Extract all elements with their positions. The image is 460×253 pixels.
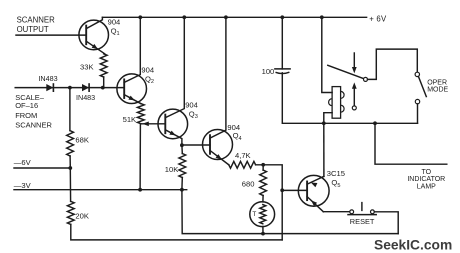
wire relay branch down <box>322 17 332 92</box>
svg-text:TO: TO <box>421 169 431 176</box>
transistor Q3 <box>158 109 188 139</box>
svg-text:904: 904 <box>141 65 154 74</box>
node -6V junction <box>68 166 72 170</box>
node rail-relay <box>320 15 324 19</box>
svg-text:IN483: IN483 <box>38 74 57 83</box>
wire scanner output to Q1 base <box>16 34 86 36</box>
resistor 680 <box>262 165 264 170</box>
wire Q5 emitter to reset <box>323 211 350 213</box>
svg-text:SCANNER: SCANNER <box>15 121 52 130</box>
resistor 10K <box>181 145 183 153</box>
node thermistor bottom junction <box>261 232 265 236</box>
node rail-Q3 <box>182 15 186 19</box>
svg-text:IN483: IN483 <box>76 93 95 102</box>
resistor 33K <box>100 54 107 77</box>
switch OPER lower contact <box>415 99 419 103</box>
svg-text:68K: 68K <box>75 135 89 144</box>
svg-text:SCANNER: SCANNER <box>17 16 55 25</box>
relay arrow down <box>353 53 355 67</box>
node relay bus lamp <box>373 121 377 125</box>
resistor 20K <box>67 201 74 224</box>
relay contact circle <box>364 77 368 81</box>
resistor 4.7K <box>229 161 256 168</box>
svg-text:33K: 33K <box>80 62 94 71</box>
diode D1 IN483 <box>46 84 53 91</box>
transistor Q5 <box>298 175 329 206</box>
svg-text:100: 100 <box>262 67 275 76</box>
svg-text:3C15: 3C15 <box>327 169 345 178</box>
node Q5 base junction <box>280 188 284 192</box>
svg-text:SeekIC.com: SeekIC.com <box>374 238 452 253</box>
wire Q5 collector riser <box>323 123 325 176</box>
node 10K -3V junction <box>180 188 184 192</box>
switch OPER arm <box>418 76 426 96</box>
relay arrow up <box>353 89 355 106</box>
wire Q3 emitter to Q4 base <box>182 144 210 146</box>
wire reset to bottom line <box>374 212 398 234</box>
switch RESET left contact <box>350 210 354 214</box>
switch RESET right contact <box>371 210 375 214</box>
node rail-Q4 <box>224 15 228 19</box>
relay coil K1 body <box>332 87 341 119</box>
svg-text:T: T <box>252 211 256 218</box>
wire 51K bottom to -3V <box>139 124 141 190</box>
wire -6V node down <box>69 168 71 201</box>
transistor Q2 <box>117 74 147 104</box>
svg-text:LAMP: LAMP <box>417 184 436 191</box>
wire coil bottom out <box>324 113 332 124</box>
svg-text:INDICATOR: INDICATOR <box>407 176 445 183</box>
svg-text:OUTPUT: OUTPUT <box>17 25 49 34</box>
capacitor C1 100 bottom plate <box>276 72 290 73</box>
node 680 top junction <box>261 163 265 167</box>
wire -3V node down to bottom <box>182 190 398 234</box>
relay lower contact circle <box>352 106 356 110</box>
wire capacitor branch top <box>281 17 283 69</box>
diode D2 IN483 <box>82 84 89 91</box>
svg-text:904: 904 <box>185 100 198 109</box>
svg-text:20K: 20K <box>75 211 89 220</box>
node Q3 emitter junction <box>180 143 184 147</box>
wire -6V <box>14 167 70 169</box>
svg-text:FROM: FROM <box>15 111 37 120</box>
capacitor C1 100 top plate <box>275 68 290 70</box>
wire +6V top rail <box>102 16 366 18</box>
svg-text:RESET: RESET <box>350 217 375 226</box>
wire 68K to -6V node <box>69 156 71 168</box>
svg-text:OPER: OPER <box>427 79 447 86</box>
transistor Q4 <box>203 130 233 160</box>
svg-text:—6V: —6V <box>14 158 32 167</box>
node 51K -3V junction <box>138 188 142 192</box>
wire armature to OPER switch <box>368 49 418 79</box>
wire 51K node to Q3 base <box>141 123 166 125</box>
switch RESET plunger <box>361 203 363 211</box>
relay armature <box>328 65 364 78</box>
relay coil right loop 2 <box>341 105 345 112</box>
transistor Q1 <box>79 20 109 50</box>
wire to indicator lamp <box>375 123 447 164</box>
wire thermistor to bottom <box>262 227 264 234</box>
wire 20K to bottom rail <box>71 224 282 240</box>
switch OPER upper contact <box>415 72 419 76</box>
node rail-Q2 <box>138 15 142 19</box>
wire 4.7K to corner <box>256 165 283 240</box>
resistor 68K <box>67 131 74 156</box>
node rail-C1 <box>280 15 284 19</box>
thermistor T1 <box>250 202 275 227</box>
node relay bus Q5-collector <box>322 121 326 125</box>
svg-text:4,7K: 4,7K <box>235 151 251 160</box>
svg-text:680: 680 <box>242 179 255 188</box>
wire -3V <box>14 189 187 191</box>
relay coil right loop 1 <box>341 91 345 98</box>
svg-text:10K: 10K <box>165 165 179 174</box>
svg-text:MODE: MODE <box>427 87 448 94</box>
wire scale input line <box>15 87 124 89</box>
wire OPER to relay bus <box>417 104 419 123</box>
wire capacitor to relay bus <box>282 73 417 124</box>
relay coil left loop <box>329 99 333 106</box>
svg-text:904: 904 <box>108 18 121 27</box>
node 33K junction B <box>101 86 105 90</box>
wire junction A down <box>69 88 71 131</box>
svg-text:—3V: —3V <box>14 181 32 190</box>
node diode junction A <box>68 86 72 90</box>
resistor 51K <box>137 104 144 124</box>
arrow into 51K node <box>142 122 149 127</box>
svg-text:51K: 51K <box>123 115 137 124</box>
svg-text:OF–16: OF–16 <box>15 101 38 110</box>
svg-text:+ 6V: + 6V <box>369 15 387 24</box>
